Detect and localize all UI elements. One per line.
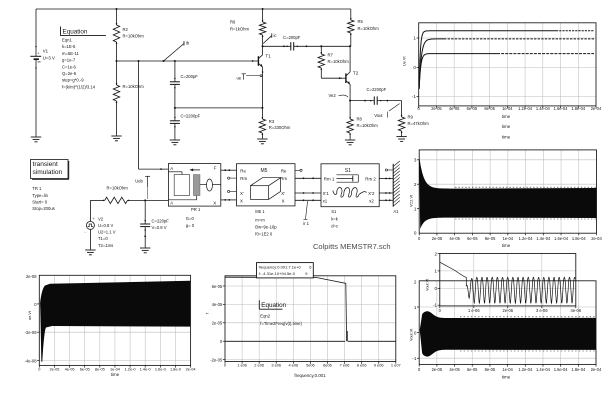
svg-text:k=k: k=k xyxy=(331,216,339,221)
svg-text:1.4e-04: 1.4e-04 xyxy=(536,236,551,241)
svg-text:x2: x2 xyxy=(369,198,374,203)
svg-text:6e06: 6e06 xyxy=(323,363,332,368)
svg-text:-2e-08: -2e-08 xyxy=(25,330,38,335)
svg-text:1.2e-04: 1.2e-04 xyxy=(518,367,533,372)
svg-text:2e-05: 2e-05 xyxy=(431,106,442,111)
svg-text:R2: R2 xyxy=(123,27,129,32)
svg-text:1e-04: 1e-04 xyxy=(502,367,513,372)
svg-text:1 e06: 1 e06 xyxy=(237,363,247,368)
svg-text:9 e06: 9 e06 xyxy=(374,363,384,368)
svg-text:A1: A1 xyxy=(393,209,399,214)
svg-text:1.4e-0: 1.4e-0 xyxy=(140,366,152,371)
svg-text:C=200pF: C=200pF xyxy=(181,74,199,79)
svg-text:2: 2 xyxy=(414,182,417,187)
svg-text:0: 0 xyxy=(414,230,417,235)
svg-text:frequency:0.001:7.1e+0: frequency:0.001:7.1e+0 xyxy=(259,265,302,270)
svg-text:2e-05: 2e-05 xyxy=(212,321,223,326)
svg-text:V=0.8 V: V=0.8 V xyxy=(152,225,167,230)
svg-text:1.8e-04: 1.8e-04 xyxy=(571,106,586,111)
svg-text:8e-05: 8e-05 xyxy=(485,236,496,241)
svg-text:Re: Re xyxy=(240,168,246,173)
svg-text:R6: R6 xyxy=(230,20,236,25)
svg-text:A: A xyxy=(170,201,173,206)
svg-text:1.6e-04: 1.6e-04 xyxy=(554,367,569,372)
svg-text:S1: S1 xyxy=(345,168,351,174)
svg-text:4e-05: 4e-05 xyxy=(212,302,223,307)
svg-text:Rm 1: Rm 1 xyxy=(324,177,335,182)
svg-text:Ve2: Ve2 xyxy=(329,93,337,98)
svg-text:6e-05: 6e-05 xyxy=(212,284,223,289)
svg-text:S1: S1 xyxy=(331,209,337,214)
svg-text:3 e06: 3 e06 xyxy=(271,363,281,368)
svg-text:simulation: simulation xyxy=(33,169,63,176)
svg-text:ic: ic xyxy=(274,33,277,38)
svg-text:1.2e-04: 1.2e-04 xyxy=(519,236,534,241)
svg-text:2e-05: 2e-05 xyxy=(432,236,443,241)
svg-text:Start= 0: Start= 0 xyxy=(32,199,47,204)
svg-text:G=0: G=0 xyxy=(186,216,195,221)
svg-text:7 e06: 7 e06 xyxy=(340,363,350,368)
svg-text:X'2: X'2 xyxy=(368,191,375,196)
svg-text:k=1E-5: k=1E-5 xyxy=(62,44,76,49)
svg-text:time: time xyxy=(502,134,511,139)
svg-text:ue: ue xyxy=(237,75,242,80)
svg-text:4e-05: 4e-05 xyxy=(65,366,75,371)
svg-text:Eqn2: Eqn2 xyxy=(260,313,270,318)
svg-text:1 e-06: 1 e-06 xyxy=(468,308,480,313)
svg-text:time: time xyxy=(502,114,511,119)
svg-text:step=g*0.-9: step=g*0.-9 xyxy=(62,78,84,83)
svg-text:-1: -1 xyxy=(412,356,417,361)
svg-text:R5: R5 xyxy=(358,19,364,24)
svg-text:1.4e-04: 1.4e-04 xyxy=(536,106,551,111)
svg-text:6e-05: 6e-05 xyxy=(467,367,478,372)
svg-text:time: time xyxy=(502,124,511,129)
svg-text:R=10kOhm: R=10kOhm xyxy=(123,34,145,39)
svg-text:f: -4.31e-10+94.5e-0: f: -4.31e-10+94.5e-0 xyxy=(259,271,296,276)
svg-text:m=5E-11: m=5E-11 xyxy=(62,51,79,56)
svg-text:4e-05: 4e-05 xyxy=(449,106,460,111)
svg-text:time: time xyxy=(502,243,511,248)
svg-text:T1: T1 xyxy=(265,53,271,58)
svg-text:T2: T2 xyxy=(353,71,359,76)
svg-text:4 e06: 4 e06 xyxy=(288,363,298,368)
svg-text:3 e-06: 3 e-06 xyxy=(536,308,548,313)
svg-text:1.4e-04: 1.4e-04 xyxy=(536,367,551,372)
svg-text:4e-05: 4e-05 xyxy=(449,236,460,241)
svg-text:1 e07: 1 e07 xyxy=(391,363,401,368)
svg-text:A: A xyxy=(170,166,173,171)
svg-text:2e-06: 2e-06 xyxy=(503,308,514,313)
svg-text:Ue.Vt: Ue.Vt xyxy=(403,56,407,66)
svg-text:6e-05: 6e-05 xyxy=(467,236,478,241)
svg-text:R3: R3 xyxy=(269,119,275,124)
svg-text:6e-05: 6e-05 xyxy=(467,106,478,111)
svg-text:Eqn1: Eqn1 xyxy=(62,38,72,43)
svg-text:8e-05: 8e-05 xyxy=(95,366,105,371)
svg-text:Vout: Vout xyxy=(374,113,383,118)
svg-text:VC2.Vt: VC2.Vt xyxy=(410,194,414,207)
svg-text:1.8e-0: 1.8e-0 xyxy=(170,366,182,371)
svg-text:U=3 V: U=3 V xyxy=(43,56,55,61)
svg-text:1.2e-0: 1.2e-0 xyxy=(125,366,137,371)
svg-text:R=47kOhm: R=47kOhm xyxy=(408,121,430,126)
svg-text:R=10kOhm: R=10kOhm xyxy=(357,123,379,128)
svg-text:1.6e-04: 1.6e-04 xyxy=(554,106,569,111)
svg-text:R7: R7 xyxy=(328,53,334,58)
svg-text:R=10kOhm: R=10kOhm xyxy=(358,26,380,31)
svg-text:frequency,0.001: frequency,0.001 xyxy=(294,373,326,378)
svg-text:1: 1 xyxy=(414,305,417,310)
svg-text:ue.Vt: ue.Vt xyxy=(28,310,32,320)
svg-text:f0=1E2 0: f0=1E2 0 xyxy=(255,232,273,237)
svg-text:Rm 2: Rm 2 xyxy=(365,177,376,182)
svg-text:Type=lin: Type=lin xyxy=(32,193,48,198)
svg-text:Re: Re xyxy=(281,168,287,173)
svg-text:C=1e-6: C=1e-6 xyxy=(62,64,77,69)
svg-text:C=2200pF: C=2200pF xyxy=(367,87,387,92)
svg-text:Vout.Vt: Vout.Vt xyxy=(426,278,430,291)
svg-text:1e-04: 1e-04 xyxy=(110,366,121,371)
svg-text:R=1kOhm: R=1kOhm xyxy=(230,27,249,32)
svg-text:C=2200pF: C=2200pF xyxy=(181,114,201,119)
svg-text:1.8e-04: 1.8e-04 xyxy=(572,236,587,241)
svg-text:f=(k/m)^(1/2)/3.14: f=(k/m)^(1/2)/3.14 xyxy=(62,84,96,89)
svg-text:M5: M5 xyxy=(261,168,268,174)
svg-text:Vout.Vt: Vout.Vt xyxy=(410,328,414,341)
svg-text:Colpitts MEMSTR7.sch: Colpitts MEMSTR7.sch xyxy=(313,242,391,251)
svg-text:2e-04: 2e-04 xyxy=(591,106,602,111)
svg-text:C=220pF: C=220pF xyxy=(152,218,170,223)
svg-text:1e-04: 1e-04 xyxy=(502,106,513,111)
svg-text:Equation: Equation xyxy=(63,28,88,35)
svg-text:transient: transient xyxy=(33,161,58,168)
svg-text:PR 1: PR 1 xyxy=(191,207,201,212)
svg-text:U2=1.1 V: U2=1.1 V xyxy=(98,230,116,235)
svg-text:Ueb: Ueb xyxy=(135,178,143,183)
svg-text:4e-06: 4e-06 xyxy=(571,308,582,313)
svg-text:X'1: X'1 xyxy=(323,191,330,196)
svg-text:R8: R8 xyxy=(357,117,363,122)
svg-text:1e-04: 1e-04 xyxy=(503,236,514,241)
svg-text:R=10kOhm: R=10kOhm xyxy=(107,186,129,191)
svg-text:5e06: 5e06 xyxy=(306,363,315,368)
svg-text:-4e-08: -4e-08 xyxy=(25,358,38,363)
svg-text:X: X xyxy=(213,200,216,205)
svg-text:f=Time2Freq(v(t),time): f=Time2Freq(v(t),time) xyxy=(260,321,302,326)
svg-text:6e-05: 6e-05 xyxy=(80,366,90,371)
svg-text:time: time xyxy=(111,372,120,377)
svg-text:-1: -1 xyxy=(433,303,437,308)
svg-text:2e-04: 2e-04 xyxy=(591,367,602,372)
svg-text:2e-04: 2e-04 xyxy=(591,236,602,241)
svg-text:F: F xyxy=(214,166,217,171)
svg-text:Equation: Equation xyxy=(261,302,286,309)
svg-text:2 e06: 2 e06 xyxy=(254,363,264,368)
svg-text:m=m: m=m xyxy=(255,217,265,222)
svg-text:8e-05: 8e-05 xyxy=(485,367,496,372)
svg-text:V1: V1 xyxy=(43,49,49,54)
svg-text:Q=2e-6: Q=2e-6 xyxy=(62,71,77,76)
svg-text:R9: R9 xyxy=(408,114,414,119)
svg-text:X: X xyxy=(282,198,285,203)
svg-text:Stop=200us: Stop=200us xyxy=(32,206,54,211)
svg-text:R=10kOhm: R=10kOhm xyxy=(123,84,145,89)
svg-text:2e-05: 2e-05 xyxy=(432,367,443,372)
svg-text:Bw=9e-16p: Bw=9e-16p xyxy=(255,224,277,229)
svg-text:g=1e-7: g=1e-7 xyxy=(62,58,76,63)
svg-text:1.8e-04: 1.8e-04 xyxy=(571,367,586,372)
svg-text:1.2e-04: 1.2e-04 xyxy=(518,106,533,111)
svg-text:R=10kOhm: R=10kOhm xyxy=(328,59,350,64)
svg-text:M5 1: M5 1 xyxy=(255,209,265,214)
svg-text:8e-05: 8e-05 xyxy=(484,106,495,111)
svg-text:1.6e-04: 1.6e-04 xyxy=(554,236,569,241)
svg-text:1.6e-0: 1.6e-0 xyxy=(155,366,167,371)
svg-text:0: 0 xyxy=(413,65,416,70)
svg-text:X': X' xyxy=(240,191,244,196)
svg-text:1: 1 xyxy=(414,206,417,211)
svg-text:ir 1: ir 1 xyxy=(303,221,309,226)
svg-text:V2: V2 xyxy=(98,217,104,222)
svg-text:-2e-05: -2e-05 xyxy=(210,357,223,362)
svg-text:2e-08: 2e-08 xyxy=(26,274,37,279)
svg-text:C=200pF: C=200pF xyxy=(283,35,301,40)
svg-text:time: time xyxy=(502,375,511,380)
svg-text:Rm: Rm xyxy=(280,176,287,181)
svg-text:g= 0: g= 0 xyxy=(186,223,195,228)
svg-text:Rm: Rm xyxy=(240,176,247,181)
svg-text:T1=0: T1=0 xyxy=(98,236,108,241)
svg-text:X': X' xyxy=(281,191,285,196)
svg-text:X: X xyxy=(240,198,243,203)
svg-text:R=330Ohm: R=330Ohm xyxy=(269,125,291,130)
svg-text:0: 0 xyxy=(414,331,417,336)
svg-text:2e-04: 2e-04 xyxy=(186,366,197,371)
svg-text:8 e06: 8 e06 xyxy=(357,363,367,368)
svg-text:U=0.8 V: U=0.8 V xyxy=(98,223,113,228)
svg-text:TR 1: TR 1 xyxy=(32,186,42,191)
svg-text:-1: -1 xyxy=(412,94,417,99)
svg-text:T2=1ms: T2=1ms xyxy=(98,243,113,248)
svg-text:2e-05: 2e-05 xyxy=(49,366,59,371)
svg-text:d=c: d=c xyxy=(331,224,338,229)
svg-text:4e-05: 4e-05 xyxy=(449,367,460,372)
svg-text:1: 1 xyxy=(413,36,416,41)
svg-text:3: 3 xyxy=(414,158,417,163)
svg-text:x1: x1 xyxy=(323,198,328,203)
svg-text:2: 2 xyxy=(414,279,417,284)
